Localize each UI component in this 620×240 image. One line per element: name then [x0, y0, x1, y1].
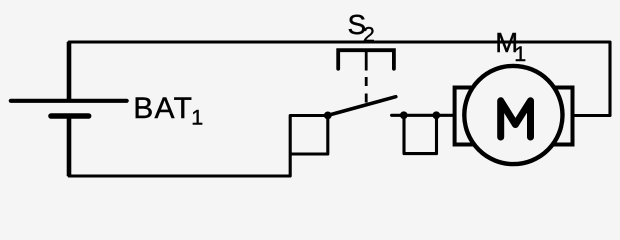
switch S2 contact node left: [400, 111, 408, 119]
switch S2 actuator bracket: [338, 50, 394, 69]
wire top rail from battery + to motor: [69, 42, 610, 116]
svg-text:BAT: BAT: [133, 92, 193, 125]
wire switch output pad to motor: [392, 114, 455, 117]
motor M1 body circle: [464, 66, 562, 164]
wire right square loop under switch output: [404, 115, 437, 153]
battery BAT1 long plate: [11, 99, 127, 103]
switch S2 pivot node: [324, 112, 332, 120]
motor M1 right brush: [549, 88, 573, 145]
svg-text:2: 2: [363, 22, 375, 46]
switch S2 contact node right: [432, 111, 440, 119]
battery BAT1 bottom lead: [67, 119, 72, 177]
battery BAT1 short plate: [51, 113, 89, 119]
svg-text:1: 1: [514, 42, 526, 66]
switch S2 mechanical link dashed: [365, 52, 368, 104]
svg-text:1: 1: [191, 105, 203, 129]
battery BAT1 top lead: [67, 42, 72, 99]
switch S2 lever (open): [328, 97, 396, 116]
motor M1 left brush: [455, 88, 479, 145]
motor M1 letter M: [501, 101, 531, 137]
wire bottom rail from battery - to switch with square loop: [69, 116, 328, 177]
